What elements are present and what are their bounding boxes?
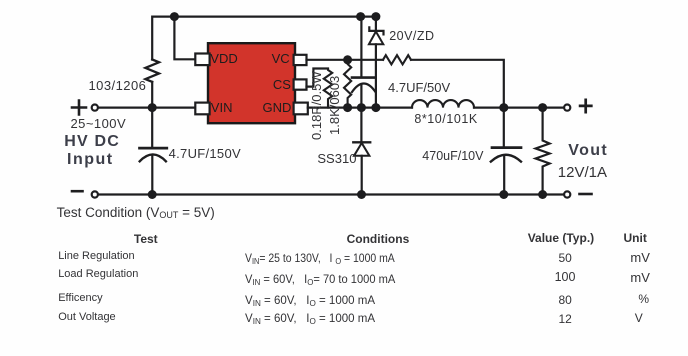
junction: Vout node / R3	[538, 103, 547, 112]
terminal: output minus	[580, 193, 592, 196]
terminal: input plus	[72, 101, 86, 115]
label: test condition title	[57, 205, 215, 220]
row 4: Out Voltage	[58, 311, 116, 323]
junction: bottom rail / C1	[148, 190, 157, 199]
IC U1 body	[208, 43, 295, 123]
junction: VC / R-1.8K	[343, 55, 352, 64]
terminal circle: input minus	[92, 191, 98, 197]
wire: bottom rail	[98, 193, 564, 195]
row 2: Load Regulation	[58, 268, 138, 280]
wire: R1 to VIN line	[151, 82, 153, 108]
capacitor C2 bottom lead	[360, 85, 362, 108]
terminal circle: input plus	[92, 105, 98, 111]
pin label: VIN	[211, 100, 233, 115]
junction: top rail / VDD branch	[170, 12, 179, 21]
label: Vout	[568, 142, 608, 160]
zener D1 cathode bar	[369, 27, 383, 34]
pin label: GND	[263, 100, 292, 115]
label: 8*10/101K	[414, 112, 477, 126]
resistor 1.8K/0603	[344, 60, 351, 108]
pin label: CS	[273, 77, 291, 92]
row 1: Line Regulation	[58, 250, 134, 262]
table header: Unit	[624, 231, 647, 245]
pin label: VDD	[210, 51, 237, 66]
wire: GND pin to inductor	[308, 106, 412, 108]
wire: inductor to output terminal	[474, 106, 564, 108]
pin VDD box	[195, 54, 209, 66]
label: 12V/1A	[558, 164, 607, 181]
pin VIN box	[195, 103, 209, 115]
label: 470uF/10V	[422, 149, 483, 163]
capacitor C3 top plate	[492, 146, 521, 149]
junction: bottom rail / C3	[499, 190, 508, 199]
capacitor C1 lead to bottom rail	[151, 155, 153, 195]
label: 0.18R/0.5W (rotated)	[309, 71, 324, 140]
wire: R2 to output node	[411, 60, 504, 108]
table header: Value (Typ.)	[528, 231, 594, 245]
label: 25~100V	[71, 116, 127, 131]
diode D2 SS310 top lead	[360, 108, 362, 142]
label: Input	[67, 151, 114, 169]
resistor 0.18R/0.5W	[324, 69, 332, 108]
label: 20V/ZD	[389, 29, 434, 43]
junction: VIN line / C1	[148, 103, 157, 112]
zener D1 bottom lead	[375, 44, 377, 107]
capacitor C1 4.7UF/150V lead	[151, 108, 153, 147]
terminal circle: output plus	[564, 105, 570, 111]
label: 4.7UF/50V	[388, 80, 450, 95]
label: 4.7UF/150V	[169, 146, 241, 161]
capacitor C3 470uF/10V top lead	[503, 108, 505, 147]
junction: SW node at 0.18R	[343, 103, 352, 112]
table header: Test	[134, 232, 158, 246]
pin VC box	[294, 55, 307, 65]
pin CS box	[294, 79, 307, 89]
terminal: input minus	[72, 190, 83, 193]
inductor L1 8*10/101K	[412, 100, 474, 107]
diode D2 bottom lead	[361, 156, 363, 195]
pin label: VC	[272, 51, 290, 66]
capacitor C1 top plate	[140, 147, 167, 150]
capacitor C2 top plate	[352, 76, 376, 79]
junction: SW node at zener	[371, 103, 380, 112]
wire: VC line	[307, 59, 384, 61]
zener D1 triangle	[369, 32, 383, 45]
junction: SW node at C2/D2	[357, 103, 366, 112]
capacitor C1 bottom plate arc	[140, 154, 166, 161]
zener D1 20V/ZD top lead	[375, 17, 377, 31]
diode D2 cathode bar	[353, 141, 370, 143]
label: 103/1206	[89, 78, 147, 93]
wire: CS bracket	[307, 69, 329, 87]
table header: Conditions	[347, 232, 410, 246]
capacitor C2 4.7UF/50V top lead	[360, 17, 362, 77]
junction: bottom rail / D2	[357, 190, 366, 199]
row 3: Efficency	[58, 292, 102, 304]
diode D2 triangle	[354, 143, 369, 156]
wire: input to VIN pin	[98, 106, 195, 108]
label: HV DC	[64, 133, 120, 151]
terminal: output plus	[580, 100, 591, 112]
junction: Vout node / C3	[499, 103, 508, 112]
junction: top rail / C2	[356, 12, 365, 21]
pin GND box	[294, 103, 308, 115]
junction: top rail / zener	[371, 12, 380, 21]
capacitor C3 bottom lead	[503, 155, 505, 195]
label: SS310	[317, 151, 356, 166]
wire: top rail	[152, 17, 376, 60]
resistor R3 load	[536, 108, 550, 195]
wire: VDD branch	[174, 17, 195, 60]
capacitor C3 bottom plate arc	[491, 155, 521, 162]
terminal circle: output minus	[564, 191, 570, 197]
resistor R2 (VC feed)	[383, 55, 411, 64]
resistor R1 103/1206	[145, 60, 159, 82]
label: 1.8K/0603 (rotated)	[327, 76, 342, 135]
capacitor C2 bottom plate arc	[352, 84, 376, 93]
junction: bottom rail / R3	[538, 190, 547, 199]
